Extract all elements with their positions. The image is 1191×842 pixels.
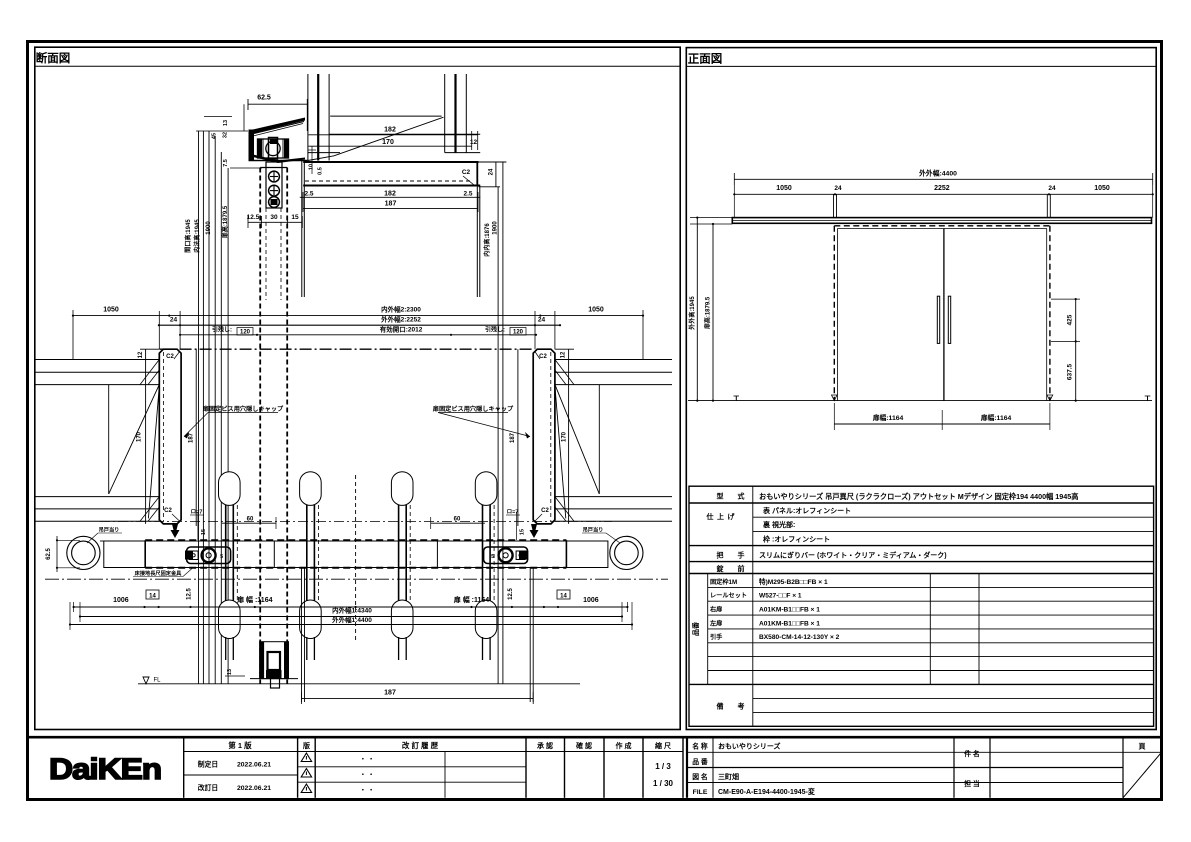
svg-text:枠 :オレフィンシート: 枠 :オレフィンシート [763, 534, 830, 543]
svg-text:吊戸当り: 吊戸当り [99, 526, 120, 534]
svg-text:425: 425 [1067, 314, 1074, 325]
svg-text:外外高:1945: 外外高:1945 [688, 296, 696, 331]
svg-text:15: 15 [201, 529, 207, 535]
svg-text:FILE: FILE [693, 789, 708, 796]
svg-text:扉幅:1164: 扉幅:1164 [981, 413, 1012, 422]
svg-text:扉 幅 :1164: 扉 幅 :1164 [453, 595, 490, 604]
svg-text:担 当: 担 当 [964, 779, 980, 788]
svg-text:C2: C2 [164, 508, 172, 514]
svg-text:32: 32 [223, 132, 229, 138]
svg-text:24: 24 [170, 316, 178, 323]
svg-text:12.5: 12.5 [187, 588, 193, 600]
svg-text:制定日: 制定日 [198, 760, 218, 769]
svg-text:外外幅2:2252: 外外幅2:2252 [381, 314, 421, 323]
svg-text:錠: 錠 [717, 564, 725, 573]
svg-text:1050: 1050 [1094, 185, 1110, 192]
svg-text:前: 前 [738, 564, 745, 573]
svg-text:おもいやりシリーズ: おもいやりシリーズ [718, 742, 781, 751]
svg-text:60: 60 [454, 517, 461, 523]
svg-text:BX580-CM-14-12-130Y × 2: BX580-CM-14-12-130Y × 2 [759, 634, 840, 641]
svg-text:187: 187 [188, 432, 194, 443]
svg-text:吊戸当り: 吊戸当り [583, 526, 604, 534]
svg-text:縮 尺: 縮 尺 [655, 741, 671, 750]
svg-text:1006: 1006 [583, 597, 599, 604]
svg-text:三町畑: 三町畑 [718, 772, 739, 781]
svg-text:24: 24 [834, 185, 842, 192]
svg-text:A01KM-B1□□FB × 1: A01KM-B1□□FB × 1 [759, 606, 820, 613]
svg-text:品 番: 品 番 [692, 757, 708, 766]
svg-text:30: 30 [270, 214, 278, 221]
svg-text:内外幅1:4340: 内外幅1:4340 [332, 606, 372, 615]
svg-text:12: 12 [470, 139, 478, 146]
svg-text:W527-□□F × 1: W527-□□F × 1 [759, 593, 802, 600]
svg-text:扉固定ビス用穴隠しキャップ: 扉固定ビス用穴隠しキャップ [432, 405, 514, 413]
svg-text:120: 120 [240, 330, 251, 336]
svg-text:60: 60 [247, 517, 254, 523]
svg-text:187: 187 [384, 690, 396, 697]
svg-text:引手: 引手 [710, 633, 723, 641]
svg-text:FL: FL [153, 678, 161, 684]
svg-text:げ: げ [728, 512, 736, 521]
svg-text:レールセット: レールセット [710, 593, 747, 600]
svg-text:引残し:: 引残し: [485, 325, 505, 333]
svg-text:扉幅:1164: 扉幅:1164 [873, 413, 904, 422]
svg-text:上: 上 [717, 512, 724, 521]
svg-text:表 パネル:オレフィンシート: 表 パネル:オレフィンシート [762, 506, 851, 515]
svg-text:2252: 2252 [934, 185, 950, 192]
svg-text:固定枠1M: 固定枠1M [710, 578, 737, 586]
svg-text:床接地長尺固定金具: 床接地長尺固定金具 [135, 569, 183, 577]
svg-text:1900: 1900 [493, 221, 499, 235]
svg-text:件 名: 件 名 [964, 749, 979, 758]
svg-text:有効開口:2012: 有効開口:2012 [380, 324, 423, 333]
svg-text:扉高:1879.5: 扉高:1879.5 [704, 296, 712, 330]
svg-text:作 成: 作 成 [616, 741, 632, 750]
svg-text:式: 式 [738, 492, 745, 501]
svg-text:左扉: 左扉 [709, 619, 722, 627]
svg-text:1900: 1900 [206, 221, 212, 235]
svg-text:2.5: 2.5 [304, 191, 313, 198]
svg-text:頁: 頁 [1139, 743, 1146, 751]
svg-text:正面図: 正面図 [688, 52, 723, 66]
svg-text:14: 14 [149, 593, 156, 599]
svg-text:10: 10 [309, 164, 315, 170]
svg-text:182: 182 [384, 127, 396, 134]
svg-text:182: 182 [384, 191, 396, 198]
svg-text:13: 13 [223, 120, 229, 126]
svg-text:12: 12 [138, 351, 144, 358]
svg-text:名 称: 名 称 [692, 742, 708, 751]
svg-text:確 認: 確 認 [576, 741, 592, 750]
svg-text:A01KM-B1□□FB × 1: A01KM-B1□□FB × 1 [759, 620, 820, 627]
svg-text:62.5: 62.5 [46, 548, 52, 560]
svg-text:2022.06.21: 2022.06.21 [237, 762, 271, 769]
svg-text:図 名: 図 名 [692, 772, 707, 781]
svg-text:C2: C2 [539, 354, 547, 360]
svg-text:内内高:1876: 内内高:1876 [483, 223, 491, 257]
svg-text:改 訂 履 歴: 改 訂 履 歴 [402, 740, 439, 750]
svg-text:CM-E90-A-E194-4400-1945-変: CM-E90-A-E194-4400-1945-変 [718, 787, 815, 796]
svg-text:外外幅:4400: 外外幅:4400 [919, 168, 957, 177]
svg-text:170: 170 [562, 431, 568, 442]
svg-text:5: 5 [220, 554, 223, 560]
svg-text:扉 幅 :1164: 扉 幅 :1164 [236, 595, 273, 604]
svg-text:12.5: 12.5 [247, 214, 260, 221]
svg-text:仕: 仕 [706, 512, 714, 521]
svg-text:12.5: 12.5 [508, 588, 514, 600]
svg-text:内法高:1945: 内法高:1945 [193, 219, 201, 253]
svg-text:1 / 3: 1 / 3 [655, 762, 671, 771]
svg-text:62.5: 62.5 [257, 95, 271, 102]
svg-text:637.5: 637.5 [1067, 363, 1074, 380]
svg-text:120: 120 [513, 330, 524, 336]
svg-text:承 認: 承 認 [537, 741, 553, 750]
svg-text:187: 187 [385, 201, 397, 208]
svg-text:スリムにぎりバー (ホワイト・クリア・ミディアム・ダーク): スリムにぎりバー (ホワイト・クリア・ミディアム・ダーク) [759, 551, 947, 560]
svg-text:30: 30 [186, 554, 192, 560]
svg-text:裏 視光部:: 裏 視光部: [762, 520, 795, 529]
svg-text:特)M295-B2B□□FB × 1: 特)M295-B2B□□FB × 1 [759, 577, 828, 586]
svg-text:改訂日: 改訂日 [198, 783, 218, 792]
svg-text:0.5: 0.5 [318, 167, 324, 175]
svg-text:扉固定ビス用穴隠しキャップ: 扉固定ビス用穴隠しキャップ [202, 405, 284, 413]
svg-text:170: 170 [382, 139, 394, 146]
svg-text:品番: 品番 [691, 621, 700, 636]
svg-text:引残し:: 引残し: [212, 325, 232, 333]
svg-text:間口高:1945: 間口高:1945 [184, 219, 192, 253]
svg-text:30: 30 [520, 554, 526, 560]
svg-text:1050: 1050 [776, 185, 792, 192]
svg-text:備: 備 [717, 702, 724, 711]
svg-text:扉高:1879.5: 扉高:1879.5 [221, 205, 229, 239]
svg-text:12: 12 [561, 351, 567, 358]
svg-text:1050: 1050 [588, 307, 604, 314]
svg-text:把: 把 [717, 551, 724, 560]
svg-text:おもいやりシリーズ 吊戸異尺 (ラクラクローズ) アウトセ: おもいやりシリーズ 吊戸異尺 (ラクラクローズ) アウトセット Mデザイン 固定… [759, 492, 1078, 501]
svg-text:右扉: 右扉 [710, 605, 722, 613]
svg-text:C2: C2 [166, 354, 174, 360]
svg-text:1006: 1006 [113, 597, 129, 604]
svg-text:14: 14 [560, 593, 567, 599]
svg-text:C2: C2 [541, 508, 549, 514]
svg-text:・ ・: ・ ・ [360, 756, 375, 763]
svg-text:15: 15 [520, 529, 526, 535]
svg-text:第 1 版: 第 1 版 [228, 740, 252, 750]
svg-text:手: 手 [738, 551, 745, 560]
svg-text:13: 13 [227, 669, 233, 675]
svg-text:ロ=7: ロ=7 [191, 509, 203, 516]
svg-text:2.5: 2.5 [463, 191, 472, 198]
svg-text:24: 24 [1048, 185, 1056, 192]
svg-text:内外幅2:2300: 内外幅2:2300 [381, 305, 421, 314]
svg-text:考: 考 [738, 702, 745, 711]
svg-text:24: 24 [488, 168, 494, 175]
svg-text:187: 187 [510, 432, 516, 443]
svg-text:・ ・: ・ ・ [360, 787, 375, 794]
svg-text:外外幅1:4400: 外外幅1:4400 [332, 615, 372, 624]
svg-text:7.5: 7.5 [223, 159, 229, 167]
svg-text:2022.06.21: 2022.06.21 [237, 785, 271, 792]
svg-text:断面図: 断面図 [36, 51, 71, 65]
svg-text:45: 45 [212, 133, 218, 139]
svg-text:型: 型 [717, 492, 724, 501]
svg-text:15: 15 [291, 214, 299, 221]
svg-text:1050: 1050 [103, 307, 119, 314]
svg-text:DaiKEn: DaiKEn [49, 753, 161, 786]
svg-text:170: 170 [137, 431, 143, 442]
svg-text:5: 5 [491, 554, 494, 560]
svg-text:・ ・: ・ ・ [360, 772, 375, 779]
svg-text:24: 24 [538, 316, 546, 323]
svg-text:C2: C2 [462, 169, 471, 176]
svg-text:1 / 30: 1 / 30 [653, 779, 674, 788]
svg-text:版: 版 [303, 741, 310, 750]
